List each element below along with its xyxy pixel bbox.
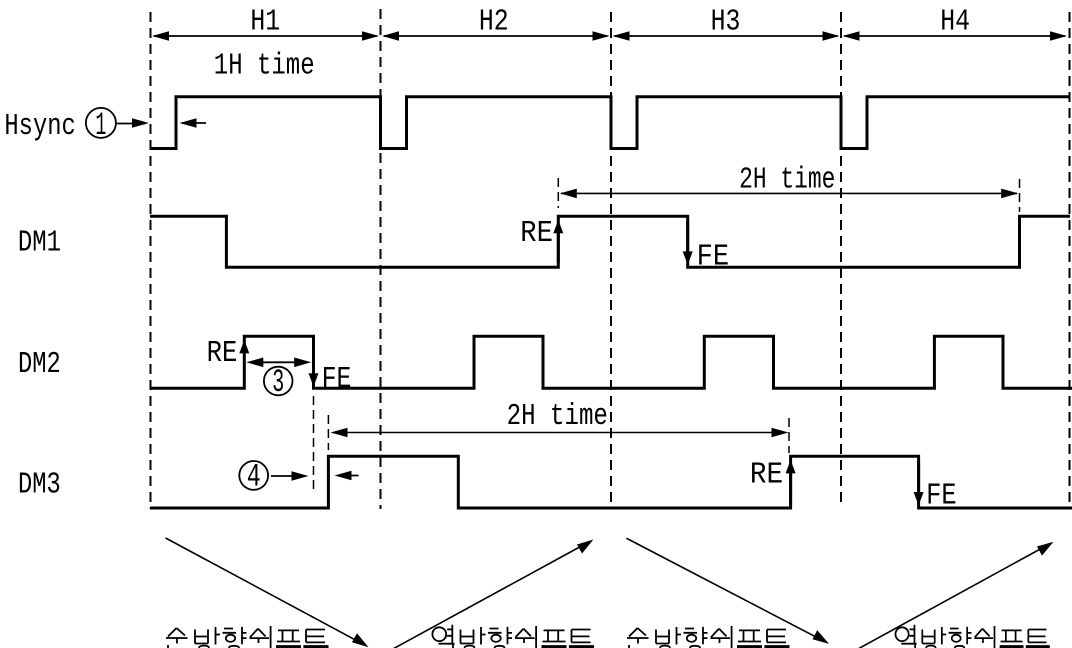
dashed gridline x=1068.5: [1069, 12, 1071, 509]
DM3 waveform: [150, 456, 1072, 508]
Hsync waveform: [150, 97, 1070, 149]
dimension arrow between DM2 edges: [246, 358, 311, 368]
korean label sunbanghyangshift 1: [166, 626, 329, 648]
diagonal arrow 3 (down-right): [626, 538, 829, 644]
RE arrow on DM2 rising edge: [239, 340, 249, 354]
svg-text:Hsync: Hsync: [4, 109, 75, 144]
dashed gridline x=841: [840, 12, 842, 508]
FE arrow on DM3 falling edge: [914, 492, 924, 506]
svg-text:FE: FE: [697, 240, 730, 275]
DM2 waveform: [150, 336, 1072, 388]
FE arrow on DM1 falling edge: [683, 251, 693, 265]
korean label yeokbanghyangshift 1: [432, 625, 594, 648]
svg-text:2H time: 2H time: [507, 399, 608, 434]
svg-text:RE: RE: [520, 216, 553, 251]
2H time dimension (DM1 row): [558, 178, 1019, 212]
diagonal arrow 2 (up-right): [391, 540, 593, 648]
arrow left at DM3 rising edge: [335, 471, 359, 481]
korean label yeokbanghyangshift 2: [895, 625, 1049, 648]
diagonal arrow 4 (up-right): [857, 542, 1054, 648]
svg-text:DM3: DM3: [18, 467, 61, 502]
short dashed line below DM2 falling edge: [313, 396, 315, 490]
arrow left at Hsync rising edge: [180, 118, 207, 128]
svg-text:FE: FE: [322, 362, 352, 397]
svg-text:H1: H1: [250, 4, 280, 39]
svg-text:FE: FE: [926, 479, 957, 514]
svg-text:H3: H3: [711, 4, 741, 39]
korean label sunbanghyangshift 2: [627, 626, 790, 648]
2H time dimension (DM3 row): [328, 415, 789, 453]
RE arrow on DM3 rising edge: [786, 460, 796, 474]
svg-text:RE: RE: [207, 336, 238, 371]
FE arrow on DM2 falling edge: [309, 373, 319, 387]
dashed gridline x=380.5: [380, 9, 382, 509]
dashed gridline x=611: [610, 12, 612, 509]
circled number 4: [239, 458, 268, 495]
dimension arrow H1: [152, 31, 379, 41]
svg-text:1: 1: [95, 107, 106, 144]
dimension arrow H3: [613, 31, 840, 41]
svg-text:3: 3: [272, 364, 284, 401]
svg-text:H4: H4: [940, 4, 970, 39]
svg-text:4: 4: [247, 458, 261, 495]
RE arrow on DM1 rising edge: [553, 220, 563, 234]
dimension arrow H2: [382, 31, 610, 41]
svg-text:H2: H2: [479, 4, 509, 39]
dimension arrow H4: [843, 31, 1068, 41]
dashed gridline x=150: [150, 12, 152, 509]
DM1 waveform: [150, 216, 1070, 267]
circled number 3: [264, 364, 293, 401]
svg-text:2H time: 2H time: [739, 162, 835, 197]
arrow from circle 4 to dashed line: [271, 471, 309, 481]
arrow from circle 1 to gridline: [117, 118, 150, 128]
svg-text:DM1: DM1: [18, 226, 61, 261]
svg-text:DM2: DM2: [18, 347, 61, 382]
diagonal arrow 1 (down-right): [166, 538, 369, 647]
circled number 1: [86, 107, 116, 144]
svg-text:RE: RE: [750, 458, 783, 493]
svg-text:1H time: 1H time: [214, 49, 315, 84]
